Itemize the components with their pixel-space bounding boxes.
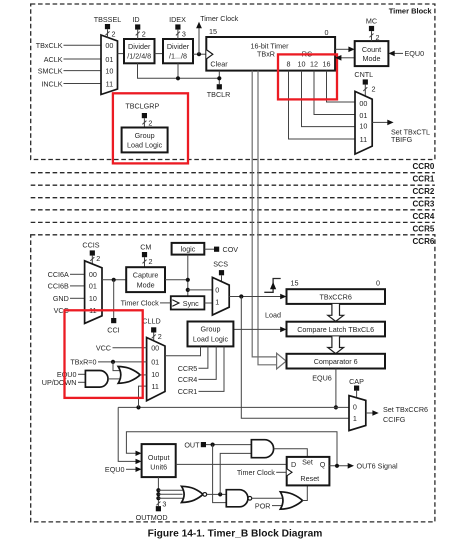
wire RC 16 <box>327 71 356 102</box>
svg-text:TBCLR: TBCLR <box>207 90 231 99</box>
logic box <box>172 243 205 255</box>
svg-text:ACLK: ACLK <box>44 55 63 64</box>
svg-text:CCR1: CCR1 <box>178 387 198 396</box>
svg-text:COV: COV <box>223 245 239 254</box>
wire TBxCLK <box>64 44 102 46</box>
junction clear <box>176 76 180 80</box>
svg-text:00: 00 <box>151 344 159 353</box>
wire clear from divider IDEX <box>177 63 179 78</box>
Timer Clock arrow <box>198 28 200 55</box>
svg-text:01: 01 <box>359 111 367 120</box>
wire output unit to DFF D <box>176 463 287 465</box>
bus TBxR left line <box>252 71 277 357</box>
wire logic vertical <box>187 255 189 297</box>
junction NOR out <box>218 492 222 496</box>
svg-text:2: 2 <box>112 29 116 38</box>
red highlight RC <box>278 54 337 99</box>
CCR3 row divider <box>31 209 435 211</box>
svg-text:EQU0: EQU0 <box>405 49 425 58</box>
svg-text:Mode: Mode <box>363 54 381 63</box>
junction OUTMOD a <box>156 488 160 492</box>
svg-text:CCI6B: CCI6B <box>48 282 69 291</box>
wire EQU0 to output unit <box>126 468 137 470</box>
wire INCLK <box>64 83 102 85</box>
svg-text:GND: GND <box>53 294 69 303</box>
svg-text:00: 00 <box>359 99 367 108</box>
svg-text:1: 1 <box>215 297 219 306</box>
junction CCI <box>112 278 116 282</box>
mux CAP <box>349 396 366 431</box>
mux TBSSEL <box>101 35 118 95</box>
wire EQU6 to output unit <box>118 407 136 461</box>
junction capture line <box>239 294 243 298</box>
svg-text:00: 00 <box>89 270 97 279</box>
wire AND to OR <box>108 378 122 380</box>
svg-text:CCIS: CCIS <box>82 240 99 249</box>
svg-text:TBxR: TBxR <box>257 49 275 58</box>
svg-text:D: D <box>291 460 296 469</box>
svg-text:CCI6A: CCI6A <box>48 270 69 279</box>
svg-text:CAP: CAP <box>349 377 364 386</box>
svg-text:MC: MC <box>366 16 377 25</box>
svg-text:8: 8 <box>287 59 291 68</box>
block arrow latch to comparator <box>328 336 344 353</box>
bus TBxR right line <box>258 71 278 365</box>
wire OUTMOD to NOR a <box>158 489 183 491</box>
wire EQU6 to CLLD mux input 11 <box>139 386 147 407</box>
wire RC 10 <box>302 71 356 127</box>
wire CAP mux output <box>366 412 373 414</box>
wire capture to CAP mux <box>241 297 349 419</box>
wire NAND to OR <box>252 497 284 499</box>
wire VCC to CLLD mux <box>113 347 147 349</box>
svg-text:11: 11 <box>151 382 158 391</box>
CCR4 row divider <box>31 221 435 223</box>
svg-text:CLLD: CLLD <box>142 317 160 326</box>
svg-text:CCI: CCI <box>107 325 119 334</box>
wire CCI6A <box>70 273 85 275</box>
wire OUTMOD to NOR c <box>158 497 183 499</box>
wire divider ID to divider IDEX <box>155 53 164 55</box>
svg-text:2: 2 <box>372 85 376 94</box>
wire POR to OR <box>272 505 284 507</box>
svg-text:2: 2 <box>376 33 380 42</box>
svg-text:SCS: SCS <box>213 259 228 268</box>
svg-text:Divider: Divider <box>128 42 151 51</box>
svg-text:Output: Output <box>148 453 170 462</box>
svg-text:Compare Latch TBxCL6: Compare Latch TBxCL6 <box>297 325 374 334</box>
Timer Block dashed border <box>31 4 435 160</box>
svg-text:TBxCCR6: TBxCCR6 <box>320 292 352 301</box>
group load logic box (timer) <box>122 128 168 153</box>
wire timer clock to sync <box>160 302 171 304</box>
svg-text:TBxCLK: TBxCLK <box>36 41 63 50</box>
net TBCLR terminal <box>217 84 222 89</box>
svg-text:Sync: Sync <box>183 299 199 308</box>
svg-text:10: 10 <box>105 66 113 75</box>
and gate out <box>251 440 273 458</box>
junction Q <box>335 464 339 468</box>
junction capture-logic <box>186 278 190 282</box>
svg-text:Load: Load <box>265 311 281 320</box>
block arrow TBxCCR6 to latch <box>328 304 344 322</box>
svg-text:Timer Clock: Timer Clock <box>200 14 238 23</box>
svg-text:01: 01 <box>151 358 159 367</box>
wire CNTL mux output <box>372 121 388 123</box>
svg-text:TBCLGRP: TBCLGRP <box>125 102 159 111</box>
wire OR to CLLD mux <box>140 374 147 376</box>
red highlight load select <box>65 310 143 398</box>
output unit6 box <box>142 444 176 477</box>
capture mode box <box>126 267 165 292</box>
junction OUT <box>211 443 215 447</box>
wire timer clock to DFF <box>276 471 287 473</box>
wire capture mode to SCS mux <box>165 279 188 281</box>
svg-text:EQU0: EQU0 <box>105 465 125 474</box>
svg-text:CCR4: CCR4 <box>178 375 198 384</box>
svg-text:TBIFG: TBIFG <box>391 135 413 144</box>
wire CLLD mux to group load logic <box>165 346 201 355</box>
wire load <box>233 328 281 330</box>
svg-text:2: 2 <box>142 29 146 38</box>
divider ID <box>124 39 155 63</box>
svg-text:3: 3 <box>162 499 166 508</box>
svg-text:Set: Set <box>302 458 313 467</box>
svg-text:CCR2: CCR2 <box>413 187 435 196</box>
svg-text:POR: POR <box>255 502 271 511</box>
wire EQU6 vertical <box>335 369 337 408</box>
svg-text:Set TBxCCR6: Set TBxCCR6 <box>383 405 428 414</box>
wire divider IDEX to timer <box>193 53 206 55</box>
net CCI terminal <box>111 318 116 323</box>
svg-text:Timer Block: Timer Block <box>389 7 433 16</box>
svg-text:SMCLK: SMCLK <box>38 66 63 75</box>
svg-text:01: 01 <box>105 55 113 64</box>
wire Q output <box>329 465 348 467</box>
svg-text:12: 12 <box>310 59 318 68</box>
wire CCR4 <box>199 346 217 379</box>
wire OUT to NAND <box>213 445 227 503</box>
svg-text:1: 1 <box>353 414 357 423</box>
wire VCC <box>70 309 85 311</box>
svg-text:OUTMOD: OUTMOD <box>136 513 168 522</box>
svg-text:CNTL: CNTL <box>354 70 373 79</box>
svg-text:2: 2 <box>149 257 153 266</box>
nand bubble <box>248 496 252 500</box>
svg-text:/1.../8: /1.../8 <box>169 52 187 61</box>
wire mux to divider ID <box>118 53 125 55</box>
or gate load <box>118 367 140 384</box>
wire EQU0 to AND <box>78 373 85 375</box>
svg-text:Clear: Clear <box>210 59 228 68</box>
wire ACLK <box>64 58 102 60</box>
junction OUTMOD b <box>156 492 160 496</box>
svg-text:Group: Group <box>201 325 221 334</box>
comparator 6 <box>287 354 386 369</box>
wire TBxR=0 to OR gate <box>113 362 122 371</box>
wire OUT <box>206 444 251 446</box>
wire clear to timer <box>218 71 220 85</box>
svg-text:Mode: Mode <box>137 281 155 290</box>
svg-text:CCR4: CCR4 <box>413 212 435 221</box>
svg-text:OUT: OUT <box>184 440 200 449</box>
junction EQU6 to CLLD <box>136 405 140 409</box>
nand gate <box>226 490 248 507</box>
CCR0 row divider <box>31 172 435 174</box>
svg-text:0: 0 <box>353 403 357 412</box>
nor bubble <box>203 493 207 497</box>
svg-text:Capture: Capture <box>133 271 159 280</box>
16-bit timer box <box>206 37 335 71</box>
wire SMCLK <box>64 70 102 72</box>
wire CCR1 <box>199 346 225 391</box>
wire OUT6 feedback <box>126 432 337 466</box>
OUTMOD slash <box>156 502 160 506</box>
wire CCR5 <box>199 346 208 368</box>
svg-text:15: 15 <box>209 27 217 36</box>
net COV terminal <box>214 247 219 252</box>
mux CLLD <box>147 338 165 401</box>
svg-text:VCC: VCC <box>96 344 111 353</box>
wire NOR out to AND <box>220 453 251 494</box>
svg-text:Unit6: Unit6 <box>150 462 167 471</box>
svg-text:ID: ID <box>132 15 139 24</box>
wire sync to SCS mux input 1 <box>204 302 212 304</box>
svg-text:00: 00 <box>105 41 113 50</box>
svg-text:UP/DOWN: UP/DOWN <box>42 378 77 387</box>
dff clock wedge <box>287 469 292 476</box>
junction capture-scs <box>186 288 190 292</box>
junction EQU6 <box>334 405 338 409</box>
junction TBCLR <box>217 76 221 80</box>
mux CCIS <box>85 261 102 324</box>
svg-text:10: 10 <box>89 294 97 303</box>
svg-text:3: 3 <box>182 29 186 38</box>
svg-text:/1/2/4/8: /1/2/4/8 <box>127 52 151 61</box>
svg-text:11: 11 <box>360 135 367 144</box>
svg-text:TBxR=0: TBxR=0 <box>70 358 96 367</box>
wire to SCS mux input 0 <box>188 289 213 291</box>
svg-text:10: 10 <box>151 370 159 379</box>
svg-text:0: 0 <box>376 279 380 288</box>
wire EQU0 to count mode <box>394 52 403 54</box>
wire GND <box>70 297 85 299</box>
mux CNTL <box>355 91 372 154</box>
svg-text:INCLK: INCLK <box>41 79 62 88</box>
group load logic box <box>188 322 234 347</box>
wire logic to COV <box>204 248 214 250</box>
svg-text:Count: Count <box>362 45 381 54</box>
svg-text:Timer Clock: Timer Clock <box>121 299 159 308</box>
svg-text:CCR3: CCR3 <box>413 200 435 209</box>
svg-text:Divider: Divider <box>167 42 190 51</box>
svg-text:IDEX: IDEX <box>169 15 186 24</box>
svg-text:Timer Clock: Timer Clock <box>237 468 275 477</box>
sync box <box>171 296 205 309</box>
svg-text:Load Logic: Load Logic <box>193 334 229 343</box>
svg-text:CCR5: CCR5 <box>178 364 198 373</box>
wire OR to DFF reset <box>303 485 308 500</box>
red highlight TBCLGRP <box>113 93 188 163</box>
wire clear from divider ID <box>138 63 220 78</box>
svg-text:EQU6: EQU6 <box>312 374 332 383</box>
nor gate outmod <box>182 486 203 502</box>
capture edge glyph <box>264 279 280 293</box>
wire NOR to NAND <box>207 493 227 495</box>
junction TBxR=0 <box>111 360 115 364</box>
wire AND to DFF set <box>274 449 308 457</box>
wire timer to count mode <box>335 48 349 50</box>
wire RC 8 <box>289 71 356 139</box>
svg-text:Comparator 6: Comparator 6 <box>314 357 358 366</box>
wire TBxR=0 to CLLD mux <box>98 361 147 363</box>
mux SCS <box>212 277 229 315</box>
svg-text:CCIFG: CCIFG <box>383 415 406 424</box>
svg-text:10: 10 <box>298 59 306 68</box>
svg-text:2: 2 <box>96 254 100 263</box>
register Compare Latch TBxCL6 <box>287 322 386 337</box>
d flip-flop <box>287 457 330 486</box>
wire SCS mux output <box>229 296 281 298</box>
svg-text:logic: logic <box>181 245 196 254</box>
wire UP/DOWN to AND <box>78 381 85 383</box>
svg-text:0: 0 <box>215 285 219 294</box>
wire OUTMOD to NOR b <box>158 493 182 495</box>
bus open arrowhead into comparator <box>277 353 287 369</box>
sync wedge <box>172 300 179 307</box>
and gate load <box>85 371 108 388</box>
or gate reset <box>280 492 302 509</box>
CCR1 row divider <box>31 184 435 186</box>
timer clock wedge <box>206 50 213 59</box>
svg-text:2: 2 <box>148 118 152 127</box>
junction timer clock <box>197 52 201 56</box>
svg-text:Figure 14-1. Timer_B Block Dia: Figure 14-1. Timer_B Block Diagram <box>148 529 323 540</box>
net OUTMOD <box>157 477 159 506</box>
junction OUTMOD c <box>156 496 160 500</box>
svg-text:Reset: Reset <box>300 474 319 483</box>
svg-text:CCR6: CCR6 <box>413 237 435 246</box>
wire RC 12 <box>314 71 355 115</box>
wire CCIS mux to capture mode <box>102 279 126 281</box>
CCR6 dashed border <box>31 235 435 522</box>
svg-text:CCR5: CCR5 <box>413 224 435 233</box>
svg-text:15: 15 <box>291 279 299 288</box>
register TBxCCR6 <box>287 289 386 304</box>
wire to CCI terminal <box>113 280 115 318</box>
svg-text:Q: Q <box>320 460 326 469</box>
svg-text:16: 16 <box>323 59 331 68</box>
svg-text:0: 0 <box>325 28 329 37</box>
svg-text:TBSSEL: TBSSEL <box>94 15 122 24</box>
svg-text:Load Logic: Load Logic <box>127 141 163 150</box>
svg-text:OUT6 Signal: OUT6 Signal <box>357 462 399 471</box>
svg-text:CM: CM <box>140 242 151 251</box>
svg-text:11: 11 <box>106 79 113 88</box>
svg-text:CCR1: CCR1 <box>413 175 435 184</box>
OUTMOD terminal <box>156 506 161 511</box>
svg-text:CCR0: CCR0 <box>413 162 435 171</box>
wire count mode to timer <box>341 57 355 59</box>
divider IDEX <box>163 39 193 63</box>
svg-text:10: 10 <box>359 122 367 131</box>
count mode box <box>355 41 389 66</box>
svg-text:2: 2 <box>158 332 162 341</box>
wire EQU6 horizontal <box>118 406 349 408</box>
wire CCI6B <box>70 285 85 287</box>
svg-text:01: 01 <box>89 282 97 291</box>
CCR2 row divider <box>31 197 435 199</box>
svg-text:Group: Group <box>135 131 155 140</box>
